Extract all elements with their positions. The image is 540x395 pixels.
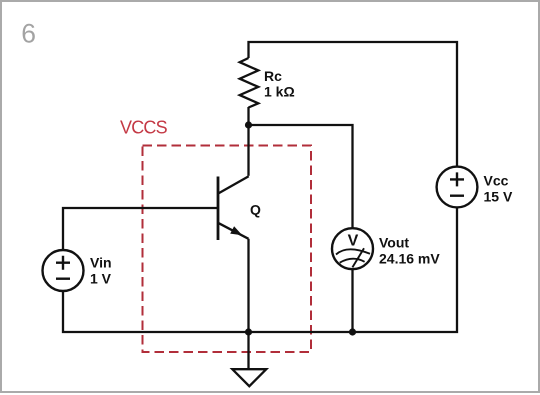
- value label 1 kOhm: [264, 84, 295, 100]
- voltage source Vin: [43, 250, 84, 291]
- value label Rc: [264, 68, 282, 84]
- VCCS label: [120, 118, 168, 138]
- resistor Rc: [240, 58, 259, 108]
- node A: collector node junction dot: [245, 121, 252, 128]
- value label 1 V: [90, 271, 112, 287]
- VCCS dashed boundary box: [143, 146, 312, 353]
- wire: collector node to voltmeter (horizontal run and upper vertical): [249, 125, 353, 228]
- svg-text:1 kΩ: 1 kΩ: [264, 84, 295, 100]
- svg-text:VCCS: VCCS: [120, 118, 168, 138]
- svg-text:Q: Q: [250, 202, 261, 218]
- label Vcc: [484, 173, 509, 189]
- transistor Q: [218, 176, 249, 240]
- label Vout: [379, 235, 409, 251]
- ground: [232, 369, 266, 386]
- svg-text:1 V: 1 V: [90, 271, 112, 287]
- voltage source Vcc: [437, 167, 478, 208]
- wire: right rail lower, bottom rail, left rail lower (Vcc to bottom to Vin): [63, 208, 457, 333]
- svg-text:V: V: [348, 232, 359, 249]
- wire: Rc top stub, top rail and right rail upper (to Vcc): [249, 42, 458, 167]
- wire: emitter wire (Q emitter to bottom rail): [247, 239, 249, 332]
- svg-text:24.16 mV: 24.16 mV: [379, 251, 440, 267]
- svg-text:15 V: 15 V: [484, 189, 513, 205]
- svg-text:Vin: Vin: [90, 255, 112, 271]
- transistor label Q: [250, 202, 261, 218]
- wire: ground stub: [247, 332, 249, 369]
- svg-text:6: 6: [21, 18, 36, 48]
- voltmeter Vout: [332, 228, 373, 269]
- node C: voltmeter-bottom junction dot: [349, 328, 356, 335]
- svg-text:Rc: Rc: [264, 68, 282, 84]
- label Vin: [90, 255, 112, 271]
- svg-text:Vcc: Vcc: [484, 173, 509, 189]
- wire: Rc bottom stub to collector node: [247, 107, 249, 125]
- svg-text:Vout: Vout: [379, 235, 409, 251]
- node B: emitter-ground junction dot: [245, 328, 252, 335]
- wire: voltmeter lower vertical: [351, 269, 353, 332]
- wire: base wire from Q base to left rail upper (to Vin): [63, 208, 218, 250]
- page number 6: [21, 18, 36, 48]
- value label 24.16 mV: [379, 251, 440, 267]
- value label 15 V: [484, 189, 513, 205]
- wire: collector wire (node to Q collector): [247, 125, 249, 176]
